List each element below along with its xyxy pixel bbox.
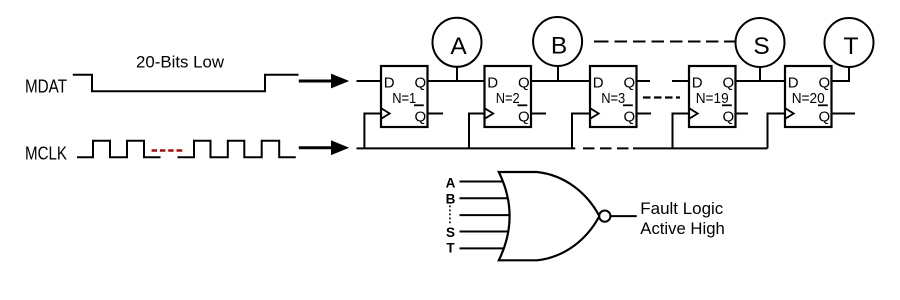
node S (736, 18, 785, 67)
clock triangle (FF1) (381, 108, 390, 119)
FF3 Q output stub (637, 80, 651, 82)
wire FF2 Q to FF3 D (531, 80, 590, 82)
svg-text:Q: Q (624, 74, 636, 91)
clock triangle (FF2) (485, 108, 494, 119)
flip-flop N=2 (485, 66, 532, 127)
svg-text:D: D (692, 74, 703, 91)
svg-text:Q: Q (518, 109, 530, 126)
NOR gate output bubble (599, 211, 610, 222)
wire FF20 Q to node T riser (832, 67, 850, 82)
svg-text:S: S (753, 33, 769, 60)
svg-text:MDAT: MDAT (25, 77, 67, 97)
svg-text:Q: Q (518, 74, 530, 91)
svg-text:A: A (446, 175, 456, 190)
clock triangle (FF20) (785, 108, 794, 119)
arrow MCLK to clock bus (299, 140, 349, 155)
flip-flop N=3 (590, 66, 637, 127)
svg-text:Q: Q (819, 109, 831, 126)
NOR gate input wire B (460, 197, 515, 199)
node A (433, 18, 482, 67)
svg-text:N=2: N=2 (496, 90, 520, 107)
flip-flop N=1 (381, 66, 428, 127)
clock bus wire dashed break (583, 147, 639, 149)
svg-text:MCLK: MCLK (25, 144, 67, 164)
svg-text:D: D (788, 74, 799, 91)
FF3 clock wire (572, 114, 590, 149)
svg-text:D: D (384, 74, 395, 91)
wire node B to Q2 (557, 67, 559, 82)
svg-text:B: B (551, 32, 567, 59)
continuation dashes between FF3 and FF19 (643, 96, 680, 98)
clock triangle (FF19) (689, 108, 698, 119)
wire into FF19 D input (672, 80, 689, 82)
NOR gate output wire (611, 215, 637, 217)
svg-text:Q: Q (415, 109, 427, 126)
svg-text:Q: Q (723, 74, 735, 91)
FF20 Qbar stub (832, 113, 856, 115)
NOR gate input wire A (460, 181, 515, 183)
svg-text:T: T (446, 241, 455, 256)
wire arrow to FF1 D input (357, 80, 382, 82)
FF1 clock wire (364, 114, 381, 149)
svg-text:Q: Q (624, 109, 636, 126)
FF19 clock wire (673, 114, 690, 149)
svg-text:A: A (450, 33, 467, 60)
svg-text:D: D (487, 74, 498, 91)
svg-text:Q: Q (415, 74, 427, 91)
NOR gate input wire S (460, 231, 515, 233)
NOR gate input wire T (460, 247, 515, 249)
MCLK waveform (77, 141, 296, 158)
clock bus wire solid right segment (639, 147, 768, 149)
FF2 Qbar stub (531, 113, 546, 115)
clock bus wire solid left segment (357, 147, 576, 149)
FF1 Qbar stub (428, 113, 444, 115)
svg-text:N=1: N=1 (392, 90, 416, 107)
svg-text:Q: Q (819, 74, 831, 91)
svg-text:T: T (844, 33, 859, 60)
FF19 Qbar stub (736, 113, 749, 115)
node B (533, 17, 582, 66)
wire FF19 Q to FF20 D (736, 80, 786, 82)
svg-text:Q: Q (723, 109, 735, 126)
MDAT waveform (73, 75, 299, 92)
svg-text:Active High: Active High (640, 220, 725, 238)
svg-text:B: B (446, 192, 456, 207)
svg-text:Fault Logic: Fault Logic (640, 200, 723, 218)
MCLK waveform break red dashes (152, 149, 183, 151)
FF3 Qbar stub (637, 113, 652, 115)
wire node A to Q1 (456, 67, 458, 82)
dashed continuation between node B and node S (594, 41, 735, 43)
flip-flop N=19 (689, 66, 736, 127)
FF2 clock wire (469, 114, 485, 149)
wire node S to Q19 (759, 67, 761, 82)
NOR gate U1 body (499, 172, 600, 260)
arrow MDAT to shift register (299, 74, 349, 89)
NOR gate input wire middle (460, 214, 515, 216)
flip-flop N=20 (785, 66, 832, 127)
clock triangle (FF3) (590, 108, 599, 119)
svg-text:D: D (593, 74, 604, 91)
node T (825, 18, 874, 67)
svg-text:S: S (446, 225, 455, 240)
dotted ellipsis between B and S labels (449, 206, 451, 225)
FF20 clock wire (768, 114, 786, 149)
wire FF1 Q to FF2 D (428, 80, 485, 82)
svg-text:20-Bits Low: 20-Bits Low (136, 53, 224, 71)
svg-text:N=3: N=3 (601, 90, 625, 107)
